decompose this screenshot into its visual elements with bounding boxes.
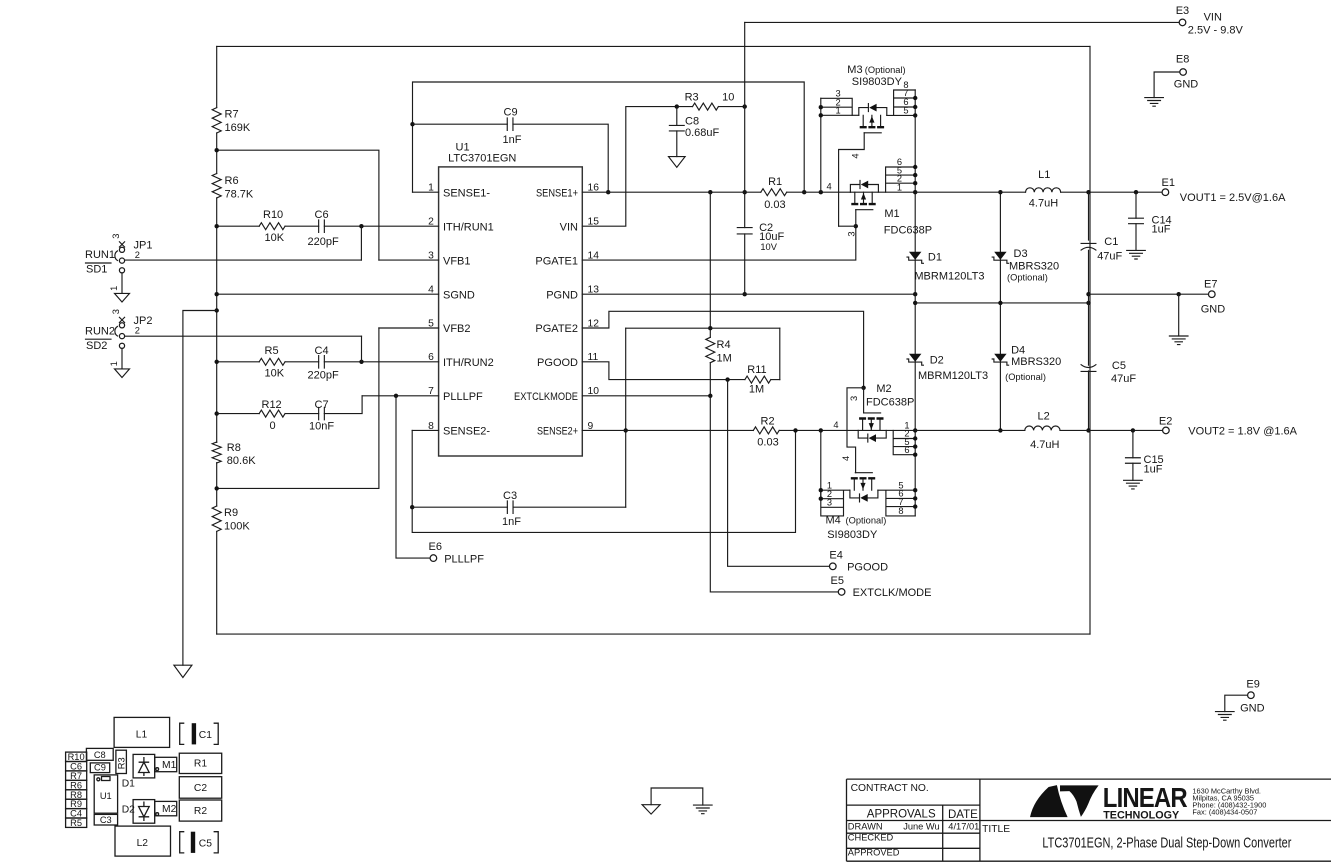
svg-text:VIN: VIN bbox=[560, 221, 578, 233]
node junction C15 top on VOUT2 row bbox=[1131, 428, 1135, 432]
wire R4 lower segment to EXTCLKMODE bbox=[709, 363, 711, 396]
wire lower ground bus bbox=[915, 302, 1088, 304]
svg-text:R6: R6 bbox=[225, 175, 239, 187]
svg-text:R2: R2 bbox=[761, 415, 775, 427]
node junction M2 pin5 tie bbox=[913, 444, 917, 448]
wire VIN pin15 jog up to R3 bbox=[582, 107, 677, 227]
overline for SD2 bbox=[86, 338, 112, 340]
wire C3 row bbox=[412, 506, 626, 508]
wire C15 stem bbox=[1132, 430, 1134, 480]
svg-text:C6: C6 bbox=[315, 209, 329, 221]
wire R8/R9 junction to VFB2 riser bbox=[217, 328, 379, 488]
ground (earth) below E8 bbox=[1145, 98, 1164, 107]
jumper JP2 pin3 X bbox=[119, 317, 124, 322]
svg-text:D2: D2 bbox=[930, 355, 944, 367]
svg-text:SENSE2-: SENSE2- bbox=[443, 426, 490, 438]
svg-text:220pF: 220pF bbox=[308, 236, 339, 248]
PCB thumbnail C2 box bbox=[179, 777, 221, 799]
svg-text:1nF: 1nF bbox=[503, 134, 522, 146]
wire M1 main row under symbol bbox=[850, 191, 915, 193]
node junction C1 top on VOUT1 row bbox=[1086, 190, 1090, 194]
svg-text:R2: R2 bbox=[194, 806, 207, 817]
ground (signal) left of tie bracket bbox=[642, 805, 660, 814]
wire outer loop left edge segments (with R7/R6/R8/R9 in line) bbox=[216, 46, 218, 634]
jumper JP1 pin3 circle bbox=[119, 247, 124, 252]
PCB thumbnail capacitor C1 footprint bbox=[180, 723, 219, 744]
capacitor C5 (polarized) bbox=[1081, 365, 1096, 372]
svg-text:PGATE1: PGATE1 bbox=[535, 255, 578, 267]
wire VIN vertical bus bbox=[744, 22, 746, 294]
wire pin1 SENSE1- stub bbox=[413, 191, 439, 193]
ground (signal) below JP2 bbox=[115, 369, 130, 378]
node junction C2 bottom on PGND row bbox=[743, 292, 747, 296]
resistor R11 bbox=[745, 376, 771, 383]
wire R3 right lead bbox=[719, 106, 745, 108]
svg-text:VFB2: VFB2 bbox=[443, 323, 471, 335]
svg-text:E4: E4 bbox=[829, 550, 842, 562]
svg-text:M3: M3 bbox=[847, 64, 862, 76]
wire E6 riser and stub bbox=[396, 396, 430, 558]
capacitor C4 bbox=[319, 356, 325, 368]
wire JP2 pin2 horizontal bbox=[125, 335, 362, 337]
node junction M4 pin5 tie bbox=[913, 488, 917, 492]
terminal E9 bbox=[1248, 692, 1255, 699]
svg-text:1nF: 1nF bbox=[502, 516, 521, 528]
svg-text:EXTCLK/MODE: EXTCLK/MODE bbox=[853, 587, 932, 599]
svg-text:C8: C8 bbox=[685, 116, 699, 128]
svg-text:SD1: SD1 bbox=[86, 264, 107, 276]
wire PGOOD divider rail horizontal bbox=[626, 327, 780, 329]
node junction SENSE1+ / kelvin sense wire at R1 right bbox=[802, 190, 806, 194]
svg-text:RUN1: RUN1 bbox=[85, 249, 115, 261]
PCB thumbnail U1 pin1 mark bbox=[97, 778, 100, 781]
jumper JP2 pin1 wire to ground bbox=[121, 348, 123, 369]
svg-text:SI9803DY: SI9803DY bbox=[827, 529, 878, 541]
PCB thumbnail R1 box bbox=[179, 753, 221, 773]
jumper JP1 pin2 circle bbox=[119, 258, 124, 263]
svg-text:PGOOD: PGOOD bbox=[537, 357, 578, 369]
node junction D3 leg on gnd bus bbox=[998, 301, 1002, 305]
svg-text:L2: L2 bbox=[1038, 411, 1050, 423]
PCB thumbnail L2 box bbox=[115, 826, 171, 856]
wire outer loop right edge bbox=[1089, 46, 1091, 634]
ground (earth) below E7 bbox=[1169, 336, 1188, 345]
svg-text:10nF: 10nF bbox=[309, 421, 334, 433]
PCB thumbnail R3 box (vertical) bbox=[116, 750, 127, 773]
wire outer loop bottom edge bbox=[217, 633, 1090, 635]
svg-text:ITH/RUN2: ITH/RUN2 bbox=[443, 357, 494, 369]
node junction R3 left / C8 top bbox=[675, 104, 679, 108]
svg-text:GND: GND bbox=[1174, 79, 1199, 91]
svg-text:10uF: 10uF bbox=[759, 231, 784, 243]
node junction VIN bus / SENSE1+ row bbox=[743, 190, 747, 194]
svg-text:DRAWN: DRAWN bbox=[848, 821, 883, 831]
svg-text:MBRM120LT3: MBRM120LT3 bbox=[918, 370, 988, 382]
svg-text:SI9803DY: SI9803DY bbox=[852, 76, 903, 88]
ground (earth) right of tie bracket bbox=[694, 805, 713, 814]
transistor M2 FDC638P symbol bbox=[858, 413, 886, 442]
wire E5 riser from EXTCLKMODE bbox=[710, 396, 838, 592]
svg-text:C2: C2 bbox=[194, 783, 207, 794]
resistor R7 bbox=[212, 108, 221, 133]
wire PGND row from pin13 to D1 bbox=[582, 293, 915, 295]
PCB thumbnail D2 box bbox=[133, 800, 155, 824]
jumper JP2 pin2 circle bbox=[119, 334, 124, 339]
svg-text:APPROVED: APPROVED bbox=[848, 848, 900, 858]
PCB thumbnail C8 box bbox=[86, 748, 113, 760]
svg-text:0.03: 0.03 bbox=[757, 437, 778, 449]
svg-text:4.7uH: 4.7uH bbox=[1030, 439, 1059, 451]
svg-text:2.5V - 9.8V: 2.5V - 9.8V bbox=[1188, 25, 1244, 37]
wire JP2 riser to ITH/RUN2 bbox=[361, 336, 363, 362]
svg-text:78.7K: 78.7K bbox=[225, 189, 254, 201]
svg-text:220pF: 220pF bbox=[308, 369, 339, 381]
node junction C14 top on VOUT1 row bbox=[1134, 190, 1138, 194]
transistor M2 right pin stack (pins 1,2,5,6) bbox=[893, 430, 915, 454]
svg-text:M1: M1 bbox=[162, 760, 177, 771]
PCB thumbnail component L1 box bbox=[114, 717, 170, 747]
node junction EXTCLKMODE / E5 riser bbox=[708, 394, 712, 398]
wire C9 row bbox=[413, 124, 609, 192]
svg-text:E2: E2 bbox=[1159, 415, 1172, 427]
node junction M4 source tie on switch row 2 bbox=[819, 428, 823, 432]
svg-text:8: 8 bbox=[898, 506, 903, 516]
capacitor C8 bbox=[669, 125, 684, 131]
wire M3 gate link to gate node bbox=[839, 225, 856, 227]
svg-text:GND: GND bbox=[1201, 304, 1226, 316]
svg-text:R7: R7 bbox=[225, 109, 239, 121]
svg-text:10: 10 bbox=[722, 91, 734, 103]
terminal E5 bbox=[838, 589, 845, 596]
svg-text:4: 4 bbox=[851, 153, 861, 158]
wire pin5 VFB2 stub bbox=[379, 327, 439, 329]
inductor L2 bbox=[1025, 426, 1060, 430]
svg-text:10V: 10V bbox=[760, 242, 777, 252]
wire C14 stem bbox=[1135, 192, 1137, 250]
wire E7 ground stem bbox=[1178, 294, 1180, 336]
svg-text:1: 1 bbox=[836, 105, 841, 115]
wire pin4 SGND row bbox=[217, 293, 439, 295]
node junction R12 row at left rail bbox=[215, 411, 219, 415]
svg-text:M2: M2 bbox=[162, 804, 177, 815]
svg-text:EXTCLKMODE: EXTCLKMODE bbox=[514, 391, 578, 403]
transistor M3 left pin stack (pins 3,2,1) bbox=[821, 98, 852, 115]
jumper JP2 pin1 circle bbox=[119, 343, 124, 348]
svg-text:C8: C8 bbox=[94, 750, 106, 760]
terminal E7 bbox=[1209, 291, 1216, 298]
wire M4 gate path from gate node bbox=[847, 388, 864, 473]
PCB thumbnail D2 diode symbol bbox=[139, 802, 150, 822]
svg-text:3: 3 bbox=[849, 396, 859, 401]
svg-text:CONTRACT NO.: CONTRACT NO. bbox=[851, 783, 929, 794]
resistor R1 bbox=[761, 189, 787, 196]
node junction M1 pin2 tie bbox=[913, 181, 917, 185]
wire E8 stub and stem bbox=[1154, 72, 1180, 98]
svg-text:M2: M2 bbox=[876, 383, 891, 395]
svg-text:3: 3 bbox=[111, 309, 121, 314]
wire M2 gate lead from gate node bbox=[863, 388, 865, 413]
svg-text:80.6K: 80.6K bbox=[227, 455, 256, 467]
ground (signal) below JP1 bbox=[115, 293, 130, 302]
svg-text:4: 4 bbox=[841, 456, 851, 461]
wire C1/C5 leg vertical bbox=[1088, 192, 1090, 430]
ground (earth) below C15 bbox=[1124, 480, 1143, 489]
svg-text:MBRS320: MBRS320 bbox=[1009, 261, 1059, 273]
wire PGATE2 from pin12 up and over to M2 gate bbox=[582, 311, 863, 388]
svg-text:LINEAR: LINEAR bbox=[1103, 782, 1188, 813]
svg-text:1M: 1M bbox=[749, 383, 764, 395]
svg-text:3: 3 bbox=[846, 231, 856, 236]
wire R3 left lead bbox=[677, 106, 693, 108]
svg-text:4.7uH: 4.7uH bbox=[1029, 197, 1058, 209]
svg-text:TITLE: TITLE bbox=[982, 824, 1010, 835]
wire JP1 riser to ITH/RUN1 bbox=[360, 226, 362, 260]
node junction M1 pin6 tie bbox=[913, 165, 917, 169]
svg-text:M1: M1 bbox=[884, 208, 899, 220]
node junction M2 pin2 tie bbox=[913, 436, 917, 440]
capacitor C9 bbox=[507, 118, 513, 130]
wire R11 right lead bbox=[771, 379, 780, 381]
PCB thumbnail M2 box bbox=[155, 801, 177, 815]
jumper JP2 pin3 circle bbox=[119, 323, 124, 328]
PCB thumbnail M1 box bbox=[155, 757, 177, 771]
wire PGOOD from pin11 down to R11 bbox=[582, 362, 745, 380]
svg-text:PLLLPF: PLLLPF bbox=[444, 553, 484, 565]
svg-text:E7: E7 bbox=[1204, 278, 1217, 290]
capacitor C7 bbox=[319, 407, 325, 419]
svg-text:C7: C7 bbox=[315, 399, 329, 411]
svg-text:R10: R10 bbox=[263, 209, 283, 221]
PCB thumbnail C9 box bbox=[90, 763, 109, 773]
wire E9 stub and stem bbox=[1225, 695, 1248, 711]
node junction C1 bottom / E7 row bbox=[1086, 292, 1090, 296]
svg-text:L1: L1 bbox=[136, 730, 148, 741]
node junction gnd bus / C1 leg bbox=[1086, 301, 1090, 305]
node junction R2 right / SENSE2- kelvin bbox=[793, 428, 797, 432]
node junction R7/R6 divider tap bbox=[215, 148, 219, 152]
PCB thumbnail D1 box bbox=[133, 754, 155, 778]
jumper JP1 shunt arc bbox=[115, 251, 118, 261]
node junction M3 source tie on switch row bbox=[819, 190, 823, 194]
wire M3 gate lead with jog down to gate node bbox=[839, 133, 865, 226]
terminal E1 bbox=[1162, 189, 1169, 196]
svg-text:169K: 169K bbox=[225, 122, 251, 134]
wire VIN top horizontal to E3 bbox=[745, 21, 1179, 23]
node junction PGND row at D1 leg bbox=[913, 292, 917, 296]
capacitor C14 bbox=[1129, 218, 1144, 224]
op-amp U1 LTC3701EGN body bbox=[439, 167, 583, 456]
node junction C5 bottom on VOUT2 row bbox=[1086, 428, 1090, 432]
resistor R4 bbox=[706, 337, 715, 362]
wire R2 right lead to M2 bbox=[779, 429, 858, 431]
node junction R11 left / E4 riser bbox=[725, 377, 729, 381]
node junction R3 right on VIN bus bbox=[743, 104, 747, 108]
wire switch-node tie vertical (M3/M1 sources, D1, D2, M2/M4) bbox=[914, 90, 916, 516]
svg-text:C3: C3 bbox=[100, 815, 112, 825]
resistor R2 bbox=[753, 427, 779, 434]
ground (earth) below C14 bbox=[1127, 250, 1146, 259]
svg-text:MBRM120LT3: MBRM120LT3 bbox=[914, 271, 984, 283]
svg-text:6: 6 bbox=[904, 445, 909, 455]
svg-text:10K: 10K bbox=[265, 232, 285, 244]
svg-text:SGND: SGND bbox=[443, 289, 475, 301]
capacitor C2 bbox=[737, 228, 752, 234]
svg-text:D3: D3 bbox=[1014, 248, 1028, 260]
diode D3 MBRS320 (optional) bbox=[994, 252, 1006, 260]
terminal E2 bbox=[1163, 427, 1170, 434]
node junction D4 bottom on VOUT2 row bbox=[998, 428, 1002, 432]
svg-text:E8: E8 bbox=[1176, 54, 1189, 66]
svg-text:June Wu: June Wu bbox=[903, 822, 940, 832]
svg-text:(Optional): (Optional) bbox=[1007, 273, 1048, 283]
svg-text:SENSE2+: SENSE2+ bbox=[537, 426, 578, 438]
wire JP1 pin2 horizontal bbox=[125, 259, 362, 261]
svg-text:R4: R4 bbox=[717, 339, 731, 351]
svg-text:2: 2 bbox=[135, 250, 140, 260]
node junction M4 pin2 tie bbox=[819, 497, 823, 501]
svg-text:SENSE1+: SENSE1+ bbox=[536, 187, 578, 199]
transistor M4 left pin stack (pins 1,2,3) bbox=[821, 490, 850, 516]
svg-text:5: 5 bbox=[903, 106, 908, 116]
svg-text:Fax: (408)434-0507: Fax: (408)434-0507 bbox=[1192, 807, 1257, 816]
capacitor C3 bbox=[507, 501, 513, 513]
jumper JP1 pin3 X bbox=[119, 242, 124, 247]
svg-text:C9: C9 bbox=[504, 107, 518, 119]
svg-text:GND: GND bbox=[1240, 702, 1265, 714]
transistor M3 right pin stack (pins 8,7,6,5) bbox=[887, 90, 915, 115]
node junction C3 left tap on SENSE2- drop bbox=[410, 505, 414, 509]
svg-text:PGATE2: PGATE2 bbox=[535, 323, 578, 335]
terminal E4 bbox=[830, 563, 837, 570]
svg-text:R9: R9 bbox=[224, 507, 238, 519]
PCB thumbnail left component stack R10 C6 R7 R6 R8 R9 C4 R5 bbox=[66, 752, 87, 761]
svg-text:2: 2 bbox=[135, 325, 140, 335]
svg-text:PLLLPF: PLLLPF bbox=[443, 391, 483, 403]
svg-text:0.03: 0.03 bbox=[764, 199, 785, 211]
svg-text:10K: 10K bbox=[265, 367, 285, 379]
PCB thumbnail D1 diode symbol bbox=[139, 757, 150, 776]
svg-text:E6: E6 bbox=[429, 541, 442, 553]
wire E7 ground row bbox=[1089, 293, 1209, 295]
wire pin2 ITH/RUN1 row bbox=[217, 225, 439, 227]
svg-text:D1: D1 bbox=[928, 252, 942, 264]
terminal E3 bbox=[1179, 19, 1186, 26]
wire pin7 PLLLPF stub bbox=[362, 395, 439, 397]
svg-text:0.68uF: 0.68uF bbox=[685, 127, 720, 139]
svg-text:SENSE1-: SENSE1- bbox=[443, 187, 490, 199]
resistor R5 bbox=[259, 358, 285, 365]
PCB thumbnail capacitor C5 footprint bbox=[180, 832, 219, 853]
wire VOUT2 row from L2 to E2 bbox=[1060, 429, 1163, 431]
node junction E7 ground tap bbox=[1177, 292, 1181, 296]
wire divider rail right riser to R11 bbox=[779, 328, 781, 379]
svg-text:47uF: 47uF bbox=[1111, 373, 1136, 385]
node junction switch node row2 bbox=[913, 428, 917, 432]
svg-text:R8: R8 bbox=[227, 442, 241, 454]
wire M3 left tie vertical down to switch row bbox=[820, 98, 822, 192]
svg-text:R3: R3 bbox=[116, 757, 126, 769]
svg-text:3: 3 bbox=[111, 234, 121, 239]
svg-text:4: 4 bbox=[827, 182, 832, 192]
node junction M4 pin1 tie bbox=[819, 488, 823, 492]
diode D2 MBRM120LT3 bbox=[909, 354, 921, 362]
node junction SGND rail lower tap bbox=[215, 308, 219, 312]
wire VOUT1 row from switch node to L1 bbox=[915, 191, 1025, 193]
wire SENSE1+ row from pin16 to R1 bbox=[582, 191, 761, 193]
svg-text:R12: R12 bbox=[262, 399, 282, 411]
svg-text:LTC3701EGN: LTC3701EGN bbox=[448, 153, 516, 165]
wire D3/D4 leg vertical bbox=[999, 192, 1001, 430]
svg-text:D1: D1 bbox=[122, 779, 135, 790]
svg-text:100K: 100K bbox=[224, 521, 250, 533]
svg-text:DATE: DATE bbox=[948, 809, 978, 821]
node junction M4 pin7 tie bbox=[913, 504, 917, 508]
wire SENSE1- up-and-over loop (pin1 to R1 right) bbox=[413, 82, 805, 192]
capacitor C15 bbox=[1126, 458, 1141, 464]
node junction SENSE1+ / C9 bbox=[606, 190, 610, 194]
ground (signal) big arrow bottom-left bbox=[174, 665, 192, 677]
wire VOUT1 row from L1 to E1 bbox=[1061, 191, 1162, 193]
svg-text:E5: E5 bbox=[831, 575, 844, 587]
node junction M3 pin1 tie bbox=[819, 113, 823, 117]
ground (earth) below E9 bbox=[1216, 712, 1235, 721]
svg-text:1: 1 bbox=[109, 361, 119, 366]
svg-text:LTC3701EGN, 2-Phase Dual Step-: LTC3701EGN, 2-Phase Dual Step-Down Conve… bbox=[1042, 836, 1291, 852]
svg-text:SD2: SD2 bbox=[86, 340, 107, 352]
wire pin8 SENSE2- stub bbox=[412, 429, 438, 431]
svg-text:1: 1 bbox=[109, 286, 119, 291]
svg-text:U1: U1 bbox=[100, 791, 112, 801]
wire R4 vertical upper segment from SENSE1+ row bbox=[709, 192, 711, 337]
svg-text:VIN: VIN bbox=[1204, 11, 1222, 23]
resistor R6 bbox=[212, 173, 221, 197]
node junction ITH/RUN1 / JP1 riser bbox=[359, 224, 363, 228]
wire M3 pin1 row link into symbol bbox=[852, 114, 859, 116]
svg-text:4/17/01: 4/17/01 bbox=[948, 822, 979, 832]
node junction SGND row at left rail bbox=[215, 292, 219, 296]
svg-text:0: 0 bbox=[270, 420, 276, 432]
node junction ITH/RUN1 at left rail bbox=[215, 224, 219, 228]
wire M4 left tie vertical from switch row 2 bbox=[820, 430, 822, 498]
svg-text:C4: C4 bbox=[315, 345, 329, 357]
diode D1 MBRM120LT3 bbox=[909, 252, 921, 260]
svg-text:C1: C1 bbox=[199, 730, 212, 741]
transistor M3 SI9803DY symbol (optional) bbox=[859, 104, 887, 133]
svg-text:FDC638P: FDC638P bbox=[866, 397, 914, 409]
wire PGATE1 from pin14 to M1 gate riser bbox=[582, 226, 856, 260]
svg-text:L1: L1 bbox=[1038, 169, 1050, 181]
svg-text:L2: L2 bbox=[137, 838, 149, 849]
PCB thumbnail C3 box bbox=[94, 814, 117, 825]
node junction D1 cathode / gnd bus riser bbox=[913, 301, 917, 305]
wire pin6 ITH/RUN2 row bbox=[217, 361, 439, 363]
node junction switch node row1 bbox=[913, 190, 917, 194]
wire M1 gate lead bbox=[855, 210, 857, 226]
svg-text:FDC638P: FDC638P bbox=[884, 225, 932, 237]
svg-text:R11: R11 bbox=[747, 364, 766, 376]
transistor M4 right pin stack (pins 5,6,7,8) bbox=[878, 490, 915, 516]
svg-text:PGND: PGND bbox=[546, 289, 578, 301]
wire ground tie bracket bbox=[651, 788, 703, 805]
transistor M4 SI9803DY symbol (optional) bbox=[850, 473, 878, 502]
svg-text:TECHNOLOGY: TECHNOLOGY bbox=[1103, 810, 1180, 822]
node junction M3 pin2 tie bbox=[819, 105, 823, 109]
svg-text:VOUT2 = 1.8V @1.6A: VOUT2 = 1.8V @1.6A bbox=[1188, 425, 1297, 437]
node junction M1 pin5 tie bbox=[913, 173, 917, 177]
wire R1 right lead to M1 bbox=[787, 191, 851, 193]
wire pin3 VFB1 stub bbox=[379, 259, 439, 261]
svg-text:4: 4 bbox=[833, 420, 838, 430]
